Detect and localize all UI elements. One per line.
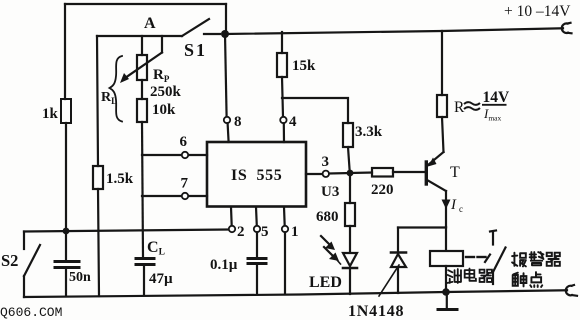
wire 680 top lead [349, 173, 351, 203]
label CJK bao (alarm char 1) [512, 253, 526, 267]
node junction S1/supply [221, 30, 229, 38]
pin 1 terminal circle [282, 226, 288, 232]
wire 1.5k bottom to rail [98, 189, 99, 296]
label CJK chu (contact char 1) [513, 273, 527, 287]
svg-text:0.1µ: 0.1µ [210, 257, 238, 273]
svg-text:47µ: 47µ [149, 271, 173, 287]
pin 4 terminal circle [280, 117, 286, 123]
wire node A horizontal [97, 35, 182, 37]
current arrow Ic [442, 200, 451, 210]
pin 5 lead [255, 207, 258, 226]
wire 220 left lead [350, 171, 372, 174]
svg-text:5: 5 [261, 224, 269, 240]
svg-text:c: c [459, 204, 463, 214]
svg-text:250k: 250k [150, 84, 182, 100]
label CJK ji (relay char 1) [447, 269, 461, 283]
resistor 680 [345, 203, 355, 226]
LED flash arrow 2 [324, 247, 333, 256]
wire supply end hook [562, 23, 572, 34]
svg-text:RP: RP [153, 67, 170, 84]
wire 1k bottom lead [65, 123, 67, 231]
svg-text:S1: S1 [184, 40, 207, 60]
svg-text:U3: U3 [321, 184, 339, 200]
relay coil box [430, 251, 463, 266]
diode 1N4148 [397, 228, 399, 253]
svg-text:Q606.COM: Q606.COM [0, 305, 62, 320]
wire top loop horizontal [65, 3, 226, 5]
wire supply rail [225, 28, 563, 34]
wire relay to ground junction [445, 266, 447, 292]
wire pin 6 [142, 154, 182, 156]
approx sign of formula [464, 102, 480, 110]
brace RL [110, 56, 123, 122]
wire pin 8 vertical [225, 34, 227, 117]
transistor T base bar [425, 162, 428, 184]
node junction pin3/3.3k/680/220 [347, 170, 354, 177]
node junction relay/rail [442, 288, 450, 296]
label CJK qi (relay char 3) [480, 270, 492, 282]
switch S1 blade [182, 19, 209, 36]
resistor 10k [141, 80, 143, 99]
alarm contact blade [493, 248, 506, 273]
wire pin 1 to rail [284, 232, 286, 294]
resistor 3.3k [343, 123, 353, 147]
wire branch to 3.3k [282, 98, 348, 123]
label CJK jing (alarm char 2) [530, 252, 544, 265]
pin 3 terminal circle [323, 171, 329, 177]
alarm contact terminal [492, 232, 494, 245]
wire pin 2 horizontal [24, 230, 229, 232]
pin 2 terminal circle [229, 226, 235, 232]
wire 1.5k branch vertical [97, 36, 98, 166]
svg-text:IS 555: IS 555 [231, 167, 282, 184]
capacitor 0.1u [248, 257, 266, 260]
wire diode branch horizontal [398, 226, 446, 228]
resistor 1.5k [93, 166, 103, 189]
LED diode [343, 253, 357, 266]
label CJK dian (relay char 2) [465, 269, 476, 281]
svg-text:A: A [144, 15, 156, 32]
svg-text:I: I [450, 197, 457, 213]
resistor 220 [372, 168, 393, 177]
wire 15k bottom / pin 4 [282, 77, 283, 117]
switch S1 fixed contact [204, 33, 220, 35]
wire R top lead [441, 31, 443, 95]
wire 680 to LED [349, 226, 351, 252]
ground symbol [446, 292, 448, 308]
svg-text:LED: LED [309, 274, 342, 291]
capacitor 50n [65, 234, 67, 261]
svg-text:680: 680 [316, 209, 339, 225]
svg-text:1.5k: 1.5k [106, 171, 134, 187]
wire R bottom to emitter [442, 117, 444, 152]
label CJK dian2 (contact char 2) [530, 272, 542, 287]
svg-text:S2: S2 [1, 251, 18, 270]
svg-text:50n: 50n [69, 270, 91, 285]
svg-text:10k: 10k [152, 102, 176, 118]
IC IS555 U1 [207, 142, 306, 207]
potentiometer wiper arrow [125, 53, 162, 79]
wire collector to relay [445, 227, 447, 251]
wire top loop right vertical [225, 4, 227, 32]
svg-text:6: 6 [180, 134, 188, 150]
resistor R [437, 95, 447, 117]
LED flash arrow 1 [321, 236, 330, 245]
resistor 15k [277, 53, 287, 77]
svg-text:220: 220 [371, 182, 394, 198]
node junction pin2/S2/50n [63, 228, 70, 235]
svg-text:1k: 1k [42, 106, 59, 122]
pin 5 terminal circle [254, 226, 260, 232]
svg-text:1: 1 [291, 224, 299, 240]
relay linkage dashes [466, 256, 474, 258]
wire 10k to pins 6-7 vertical [142, 122, 143, 257]
svg-text:+ 10 –14V: + 10 –14V [504, 3, 571, 20]
wire left vertical to 1k [64, 4, 66, 99]
wire pin 7 [142, 195, 182, 197]
svg-text:15k: 15k [292, 58, 316, 74]
pin 1 lead [283, 207, 286, 226]
wire bottom rail end hook [566, 285, 577, 296]
wire 3.3k bottom [348, 147, 350, 170]
resistor R 1k [61, 99, 71, 123]
svg-text:3.3k: 3.3k [355, 124, 383, 140]
svg-text:R: R [454, 99, 465, 116]
svg-text:2: 2 [237, 224, 245, 240]
transistor T collector [427, 180, 446, 191]
svg-text:8: 8 [234, 114, 242, 130]
label CJK qi (alarm char 3) [547, 253, 560, 266]
wire RP top lead [141, 36, 143, 55]
pin 7 terminal circle [182, 193, 188, 199]
svg-text:7: 7 [181, 176, 189, 192]
formula fraction bar [482, 104, 507, 106]
svg-text:CL: CL [147, 239, 165, 258]
potentiometer RP 250k [137, 55, 147, 80]
switch S2 [23, 232, 25, 250]
wire bottom ground rail [24, 290, 567, 297]
wire pin 5 to 0.1u [256, 232, 258, 258]
label pointer 1N4148 [379, 265, 399, 296]
svg-text:T: T [450, 164, 460, 181]
capacitor CL 47u [136, 257, 154, 260]
svg-text:Imax: Imax [483, 106, 502, 123]
svg-text:3: 3 [322, 154, 330, 170]
pin 6 terminal circle [182, 152, 188, 158]
svg-text:1N4148: 1N4148 [348, 303, 404, 320]
transistor T emitter [428, 152, 444, 165]
wire pin 3 [306, 173, 322, 175]
pin 2 lead [230, 207, 233, 226]
wire 220 right lead to base [393, 171, 425, 173]
svg-text:4: 4 [289, 114, 297, 130]
svg-text:14V: 14V [483, 89, 511, 106]
pin 8 terminal circle [224, 117, 230, 123]
wire 15k top [281, 32, 283, 53]
